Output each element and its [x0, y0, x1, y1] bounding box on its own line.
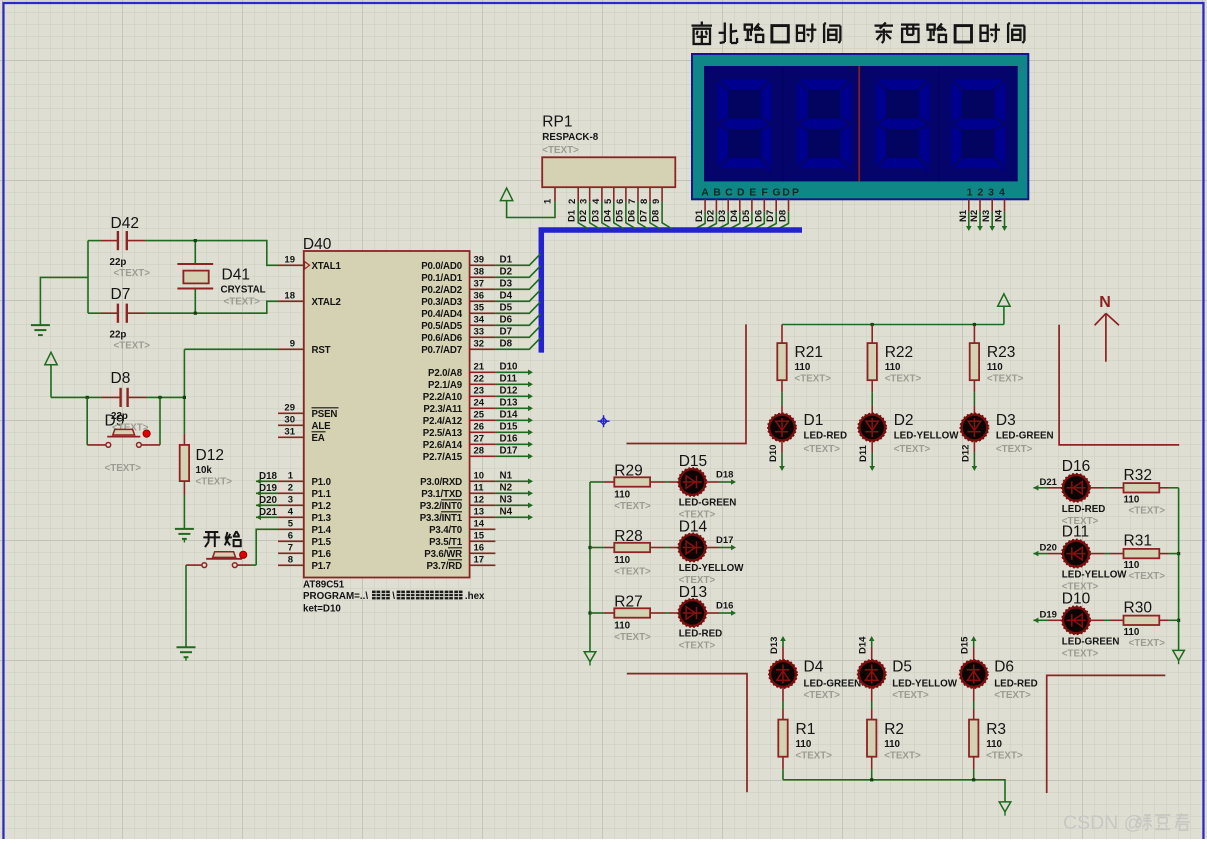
label title 南北路口时间 (north-south crossing time): [692, 22, 841, 45]
svg-text:D1: D1: [804, 412, 824, 429]
svg-text:<TEXT>: <TEXT>: [1129, 571, 1166, 582]
wire D11 anode (net D20): [1033, 543, 1062, 557]
wire R2 to bottom rail: [871, 757, 873, 780]
svg-text:RP1: RP1: [542, 114, 572, 131]
svg-text:18: 18: [284, 290, 295, 301]
LED D13 LED-RED: [678, 584, 722, 652]
MCU pin 33 P0.6/AD6 wire to bus (net D7): [421, 326, 540, 344]
svg-text:110: 110: [884, 739, 900, 750]
svg-text:R22: R22: [885, 344, 913, 361]
MCU pin 25 P2.4/A12 wire (net D14): [423, 409, 533, 427]
MCU pin 35 P0.4/AD4 wire to bus (net D5): [421, 302, 540, 320]
MCU P1.2 wire (net D20): [256, 495, 278, 508]
svg-text:D12: D12: [196, 447, 224, 464]
watermark CSDN @绿豆君: [1063, 812, 1190, 834]
svg-text:D15: D15: [500, 421, 519, 432]
svg-text:D4: D4: [500, 290, 513, 301]
svg-text:D15: D15: [960, 636, 971, 654]
svg-text:D10: D10: [768, 445, 779, 462]
svg-text:110: 110: [796, 739, 812, 750]
resistor R2 110: [867, 720, 921, 762]
svg-text:R29: R29: [614, 463, 642, 480]
svg-text:D21: D21: [259, 507, 278, 518]
svg-text:<TEXT>: <TEXT>: [1129, 638, 1166, 649]
svg-text:P2.7/A15: P2.7/A15: [423, 452, 463, 463]
LED D6 LED-RED: [960, 659, 1038, 702]
MCU pin 24 P2.3/A11 wire (net D13): [423, 397, 533, 415]
svg-text:RST: RST: [312, 345, 331, 356]
wire D4 cathode (net D13): [769, 636, 786, 660]
MCU pin 38 P0.1/AD1 wire to bus (net D2): [421, 266, 540, 284]
svg-text:4: 4: [288, 506, 294, 517]
svg-text:D4: D4: [729, 209, 740, 222]
svg-text:<TEXT>: <TEXT>: [1062, 648, 1099, 659]
svg-text:D3: D3: [590, 210, 601, 222]
svg-text:P2.0/A8: P2.0/A8: [428, 368, 463, 379]
resistor R30 110: [1124, 599, 1166, 649]
wire D2 cathode (net D11): [858, 441, 875, 471]
wire R27 to D13: [650, 612, 679, 614]
svg-text:D7: D7: [639, 210, 650, 222]
svg-text:31: 31: [284, 426, 295, 437]
svg-text:P0.1/AD1: P0.1/AD1: [421, 273, 463, 284]
svg-text:D7: D7: [500, 326, 513, 337]
display pin G wire to bus (net D7): [765, 199, 776, 228]
svg-text:D11: D11: [858, 444, 869, 462]
svg-text:D8: D8: [651, 210, 662, 222]
MCU pin 36 P0.3/AD3 wire to bus (net D4): [421, 290, 540, 308]
svg-text:3: 3: [988, 186, 994, 198]
svg-text:9: 9: [290, 338, 295, 349]
svg-text:D10: D10: [1062, 590, 1091, 607]
svg-text:D1: D1: [694, 209, 705, 222]
svg-text:D1: D1: [500, 254, 513, 265]
display pin DP wire to bus (net D8): [778, 199, 789, 228]
wire R32 to common: [1159, 487, 1178, 489]
svg-text:D40: D40: [303, 236, 332, 253]
svg-text:24: 24: [474, 397, 485, 408]
wire D6 to R3: [973, 688, 975, 720]
svg-text:N4: N4: [500, 506, 513, 517]
svg-text:D: D: [737, 186, 745, 198]
wire D6 cathode (net D15): [960, 636, 977, 660]
svg-text:.hex: .hex: [465, 591, 485, 602]
svg-text:P3.7/RD: P3.7/RD: [426, 561, 462, 572]
svg-text:R28: R28: [614, 528, 642, 545]
svg-text:3: 3: [579, 199, 590, 204]
svg-text:4: 4: [999, 186, 1005, 198]
svg-text:P0.2/AD2: P0.2/AD2: [421, 285, 462, 296]
svg-text:<TEXT>: <TEXT>: [1129, 505, 1166, 516]
LED D10 LED-GREEN: [1062, 590, 1120, 659]
MCU P1.3 wire (net D21): [256, 507, 278, 520]
MCU pin 31 EA: [278, 426, 326, 444]
display pin F wire to bus (net D6): [753, 199, 764, 228]
svg-text:D5: D5: [500, 302, 513, 313]
label title 东西路口时间 (east-west crossing time): [875, 23, 1025, 44]
RP1 pin 6 wire to bus (net D5): [614, 187, 635, 228]
svg-text:8: 8: [288, 554, 293, 565]
svg-text:D16: D16: [716, 601, 733, 612]
svg-text:D13: D13: [679, 584, 707, 601]
svg-text:LED-YELLOW: LED-YELLOW: [894, 431, 960, 442]
MCU pin 3 P1.2: [278, 494, 331, 512]
svg-text:13: 13: [474, 506, 485, 517]
7-segment digit 3 (blank 8): [876, 79, 930, 172]
7-segment digit 1 (blank 8): [718, 79, 772, 172]
svg-text:P1.6: P1.6: [312, 549, 332, 560]
svg-text:D6: D6: [994, 659, 1014, 676]
svg-text:<TEXT>: <TEXT>: [614, 567, 651, 578]
svg-text:P0.4/AD4: P0.4/AD4: [421, 309, 463, 320]
svg-text:19: 19: [284, 254, 295, 265]
svg-text:<TEXT>: <TEXT>: [996, 444, 1033, 455]
svg-text:2: 2: [977, 186, 983, 198]
svg-text:N: N: [1099, 294, 1111, 311]
wire R29 to D15: [650, 481, 679, 483]
wire left vertical D42-D7: [87, 241, 89, 314]
display pin C wire to bus (net D3): [717, 199, 728, 228]
svg-text:21: 21: [474, 361, 485, 372]
MCU pin 18 XTAL2: [278, 290, 341, 308]
RP1 pin 1 wire to power: [507, 187, 555, 217]
LED D14 LED-YELLOW: [678, 519, 744, 587]
compass north arrow N: [1095, 294, 1119, 362]
MCU pin 19 XTAL1: [278, 254, 341, 272]
LED D15 LED-GREEN: [678, 453, 736, 521]
wire R23 to D3: [973, 380, 975, 414]
svg-text:8: 8: [639, 199, 650, 204]
svg-text:P0.6/AD6: P0.6/AD6: [421, 333, 463, 344]
road outline bottom-left corner: [627, 674, 747, 793]
svg-text:<TEXT>: <TEXT>: [614, 501, 651, 512]
svg-text:30: 30: [284, 414, 295, 425]
svg-text:27: 27: [474, 433, 485, 444]
svg-text:D18: D18: [259, 471, 278, 482]
svg-text:P1.4: P1.4: [312, 525, 332, 536]
RP1 pin 3 wire to bus (net D2): [578, 187, 599, 228]
svg-text:P3.1/TXD: P3.1/TXD: [421, 489, 462, 500]
svg-text:<TEXT>: <TEXT>: [614, 632, 651, 643]
svg-text:110: 110: [614, 621, 630, 632]
svg-text:<TEXT>: <TEXT>: [986, 751, 1023, 762]
capacitor D7 22p: [88, 286, 150, 352]
svg-text:110: 110: [614, 555, 630, 566]
svg-text:D8: D8: [778, 210, 789, 222]
svg-text:EA: EA: [312, 433, 325, 444]
svg-text:LED-RED: LED-RED: [679, 629, 723, 640]
svg-text:110: 110: [614, 490, 630, 501]
svg-text:D4: D4: [804, 659, 824, 676]
svg-text:<TEXT>: <TEXT>: [796, 751, 833, 762]
svg-text:D11: D11: [1062, 524, 1089, 541]
MCU pin 8 P1.7: [278, 554, 331, 572]
svg-text:110: 110: [1124, 560, 1140, 571]
svg-text:<TEXT>: <TEXT>: [884, 751, 921, 762]
svg-text:P0.5/AD5: P0.5/AD5: [421, 321, 463, 332]
svg-text:ket=D10: ket=D10: [303, 604, 341, 615]
svg-text:D8: D8: [111, 370, 131, 387]
svg-text:D18: D18: [716, 470, 733, 481]
svg-text:D13: D13: [500, 397, 519, 408]
wire D16 anode (net D21): [1033, 477, 1062, 491]
svg-text:D42: D42: [111, 215, 139, 232]
svg-text:D19: D19: [1040, 609, 1057, 620]
svg-text:110: 110: [1124, 494, 1140, 505]
LED D2 LED-YELLOW: [858, 412, 959, 455]
MCU pin 11 P3.1/TXD wire (net N2): [421, 482, 533, 500]
svg-text:\: \: [392, 591, 395, 602]
svg-text:LED-YELLOW: LED-YELLOW: [679, 563, 745, 574]
wire D11 to R31: [1090, 553, 1124, 555]
svg-text:R30: R30: [1124, 599, 1153, 616]
svg-text:37: 37: [474, 278, 485, 289]
resistor D12 10k: [180, 434, 233, 495]
svg-text:1: 1: [288, 470, 294, 481]
svg-text:R21: R21: [795, 344, 823, 361]
wire R31 to common: [1159, 553, 1178, 555]
svg-text:LED-GREEN: LED-GREEN: [1062, 636, 1120, 647]
svg-text:D7: D7: [111, 286, 131, 303]
svg-text:PSEN: PSEN: [312, 409, 338, 420]
svg-text:<TEXT>: <TEXT>: [795, 374, 832, 385]
wire D5 cathode (net D14): [858, 636, 875, 660]
svg-text:D3: D3: [500, 278, 513, 289]
svg-text:D41: D41: [222, 267, 250, 284]
push button START (开始): [202, 551, 247, 567]
svg-text:<TEXT>: <TEXT>: [804, 444, 841, 455]
svg-text:LED-YELLOW: LED-YELLOW: [892, 679, 958, 690]
ground arrow left group: [584, 652, 596, 666]
road outline top-right corner: [1059, 325, 1179, 445]
ground arrow right group: [1173, 650, 1185, 664]
svg-text:5: 5: [603, 198, 614, 204]
svg-text:LED-RED: LED-RED: [1062, 504, 1106, 515]
MCU pin 1 P1.0: [278, 470, 331, 488]
MCU pin 13 P3.3/INT1 wire (net N4): [420, 506, 533, 524]
svg-text:B: B: [713, 186, 721, 198]
RP1 pin 9 wire to bus (net D8): [651, 187, 672, 228]
svg-text:LED-RED: LED-RED: [804, 431, 848, 442]
display common pin 4 wire (net N4): [994, 199, 1008, 231]
push button START wires: [186, 529, 279, 647]
svg-text:D2: D2: [705, 210, 716, 222]
svg-text:<TEXT>: <TEXT>: [892, 690, 929, 701]
wire D16 to R32: [1090, 487, 1124, 489]
svg-text:XTAL1: XTAL1: [312, 261, 342, 272]
svg-text:110: 110: [885, 362, 901, 373]
svg-text:D14: D14: [679, 519, 708, 536]
RP1 pin 2 wire to bus (net D1): [567, 187, 588, 228]
svg-text:P3.3/INT1: P3.3/INT1: [420, 513, 463, 524]
wire D10 to R30: [1090, 619, 1124, 621]
svg-text:<TEXT>: <TEXT>: [114, 341, 151, 352]
svg-text:P0.0/AD0: P0.0/AD0: [421, 261, 462, 272]
svg-text:2: 2: [567, 199, 578, 204]
MCU pin 34 P0.5/AD5 wire to bus (net D6): [421, 314, 540, 332]
svg-text:15: 15: [474, 530, 485, 541]
svg-text:R2: R2: [884, 721, 904, 738]
MCU pin 15 P3.5/T1: [429, 530, 495, 548]
resistor R29 110: [590, 463, 651, 513]
MCU pin 9 RST: [278, 338, 331, 356]
svg-text:10: 10: [474, 470, 485, 481]
svg-text:P0.3/AD3: P0.3/AD3: [421, 297, 463, 308]
wire D42 left to vertical: [88, 240, 101, 242]
svg-text:3: 3: [288, 494, 293, 505]
svg-text:<TEXT>: <TEXT>: [987, 374, 1024, 385]
svg-text:LED-GREEN: LED-GREEN: [804, 679, 862, 690]
7-segment digit 2 (blank 8): [797, 79, 851, 172]
svg-text:N3: N3: [500, 494, 513, 505]
LED D5 LED-YELLOW: [858, 659, 958, 702]
svg-text:25: 25: [474, 409, 485, 420]
bus wire (blue) from MCU port0 to display: [541, 230, 802, 353]
MCU pin 4 P1.3: [278, 506, 332, 524]
svg-text:LED-GREEN: LED-GREEN: [679, 498, 737, 509]
svg-text:6: 6: [288, 530, 293, 541]
svg-text:G: G: [772, 186, 780, 198]
display center divider line: [858, 66, 860, 181]
MCU pin 29 PSEN: [278, 402, 339, 420]
svg-text:<TEXT>: <TEXT>: [994, 690, 1031, 701]
display pin B wire to bus (net D2): [705, 199, 716, 228]
wire D7 row to XTAL2: [145, 301, 279, 313]
LED D1 LED-RED: [768, 412, 847, 455]
wire bottom ground rail: [783, 780, 1005, 802]
display pin A wire to bus (net D1): [694, 199, 705, 228]
svg-text:110: 110: [795, 362, 811, 373]
display common pin 3 wire (net N3): [981, 199, 995, 231]
svg-text:35: 35: [474, 302, 485, 313]
svg-text:34: 34: [474, 314, 485, 325]
wire D15 cathode (net D18): [706, 470, 737, 485]
svg-text:4: 4: [591, 198, 602, 204]
svg-text:LED-YELLOW: LED-YELLOW: [1062, 570, 1128, 581]
wire D13 cathode (net D16): [706, 601, 737, 616]
svg-text:<TEXT>: <TEXT>: [804, 690, 841, 701]
wire D5 to R2: [871, 688, 873, 720]
resistor R22 110: [868, 325, 922, 385]
MCU pin 5 P1.4: [278, 518, 332, 536]
MCU pin 16 P3.6/WR: [424, 542, 495, 560]
svg-text:D2: D2: [578, 210, 589, 222]
7-segment digit 4 (blank 8): [951, 79, 1005, 172]
power arrow for RP1 pin1: [500, 188, 512, 201]
wire R3 to bottom rail: [973, 757, 975, 780]
svg-text:P2.2/A10: P2.2/A10: [423, 392, 462, 403]
LED D4 LED-GREEN: [769, 659, 861, 702]
svg-text:22p: 22p: [110, 330, 127, 341]
svg-text:D10: D10: [500, 361, 519, 372]
wire RST row: [184, 348, 278, 350]
svg-text:D3: D3: [717, 210, 728, 222]
svg-text:ALE: ALE: [312, 421, 332, 432]
road outline top-left corner: [627, 324, 747, 443]
MCU pin 2 P1.1: [278, 482, 332, 500]
svg-text:P3.0/RXD: P3.0/RXD: [420, 477, 462, 488]
svg-text:D21: D21: [1040, 477, 1058, 488]
svg-text:<TEXT>: <TEXT>: [196, 477, 233, 488]
svg-text:D14: D14: [858, 636, 869, 654]
ground symbol below D12: [175, 529, 194, 543]
svg-text:110: 110: [986, 739, 1002, 750]
svg-text:<TEXT>: <TEXT>: [679, 641, 716, 652]
svg-text:D16: D16: [500, 433, 519, 444]
svg-text:P1.2: P1.2: [312, 501, 331, 512]
wire D10 anode (net D19): [1033, 609, 1062, 623]
svg-text:D13: D13: [769, 637, 780, 654]
ground symbol left: [31, 325, 50, 335]
svg-text:LED-GREEN: LED-GREEN: [996, 431, 1054, 442]
svg-text:22: 22: [474, 373, 485, 384]
RP1 pin 8 wire to bus (net D7): [639, 187, 660, 228]
svg-text:1: 1: [967, 186, 973, 198]
svg-text:P0.7/AD7: P0.7/AD7: [421, 345, 462, 356]
svg-text:36: 36: [474, 290, 485, 301]
wire R28 to D14: [650, 547, 679, 549]
resistor R1 110: [778, 720, 832, 762]
svg-text:F: F: [761, 186, 768, 198]
svg-text:E: E: [749, 186, 756, 198]
LED D3 LED-GREEN: [960, 412, 1053, 455]
svg-text:33: 33: [474, 326, 485, 337]
svg-text:P2.4/A12: P2.4/A12: [423, 416, 462, 427]
svg-text:P1.5: P1.5: [312, 537, 332, 548]
svg-text:<TEXT>: <TEXT>: [542, 145, 579, 156]
wire D14 cathode (net D17): [706, 535, 737, 550]
MCU pin 17 P3.7/RD: [426, 554, 495, 572]
svg-text:D15: D15: [679, 453, 707, 470]
svg-text:D20: D20: [1040, 543, 1057, 554]
svg-text:N3: N3: [981, 210, 992, 222]
svg-text:P1.7: P1.7: [312, 561, 331, 572]
MCU pin 6 P1.5: [278, 530, 332, 548]
svg-text:14: 14: [474, 518, 485, 529]
svg-text:9: 9: [651, 199, 662, 204]
svg-text:P3.5/T1: P3.5/T1: [429, 537, 463, 548]
resistor R27 110: [590, 594, 651, 644]
svg-text:D6: D6: [627, 210, 638, 222]
LED D11 LED-YELLOW: [1062, 524, 1128, 593]
label 开始 (start): [203, 531, 240, 547]
MCU pin 26 P2.5/A13 wire (net D15): [423, 421, 533, 439]
svg-text:D14: D14: [500, 409, 519, 420]
svg-text:110: 110: [987, 362, 1003, 373]
svg-text:39: 39: [474, 254, 485, 265]
svg-text:D12: D12: [960, 445, 971, 462]
MCU pin 10 P3.0/RXD wire (net N1): [420, 470, 533, 488]
svg-text:R27: R27: [614, 594, 642, 611]
svg-text:P3.2/INT0: P3.2/INT0: [420, 501, 462, 512]
MCU pin 39 P0.0/AD0 wire to bus (net D1): [421, 254, 540, 272]
7-segment display module (4-digit, blue): [692, 54, 1028, 199]
ground arrow bottom rail: [999, 802, 1011, 816]
svg-text:A: A: [701, 186, 709, 198]
svg-text:R1: R1: [796, 721, 816, 738]
svg-text:D2: D2: [894, 412, 914, 429]
svg-text:1: 1: [543, 198, 554, 204]
svg-text:11: 11: [474, 482, 485, 493]
svg-text:17: 17: [474, 554, 485, 565]
svg-text:<TEXT>: <TEXT>: [894, 444, 931, 455]
capacitor D42 22p: [101, 215, 150, 279]
resistor R32 110: [1124, 467, 1166, 517]
svg-text:CRYSTAL: CRYSTAL: [221, 285, 266, 296]
svg-text:38: 38: [474, 266, 485, 277]
resistor pack RP1 RESPACK-8: [542, 114, 675, 188]
svg-text:D6: D6: [753, 210, 764, 222]
